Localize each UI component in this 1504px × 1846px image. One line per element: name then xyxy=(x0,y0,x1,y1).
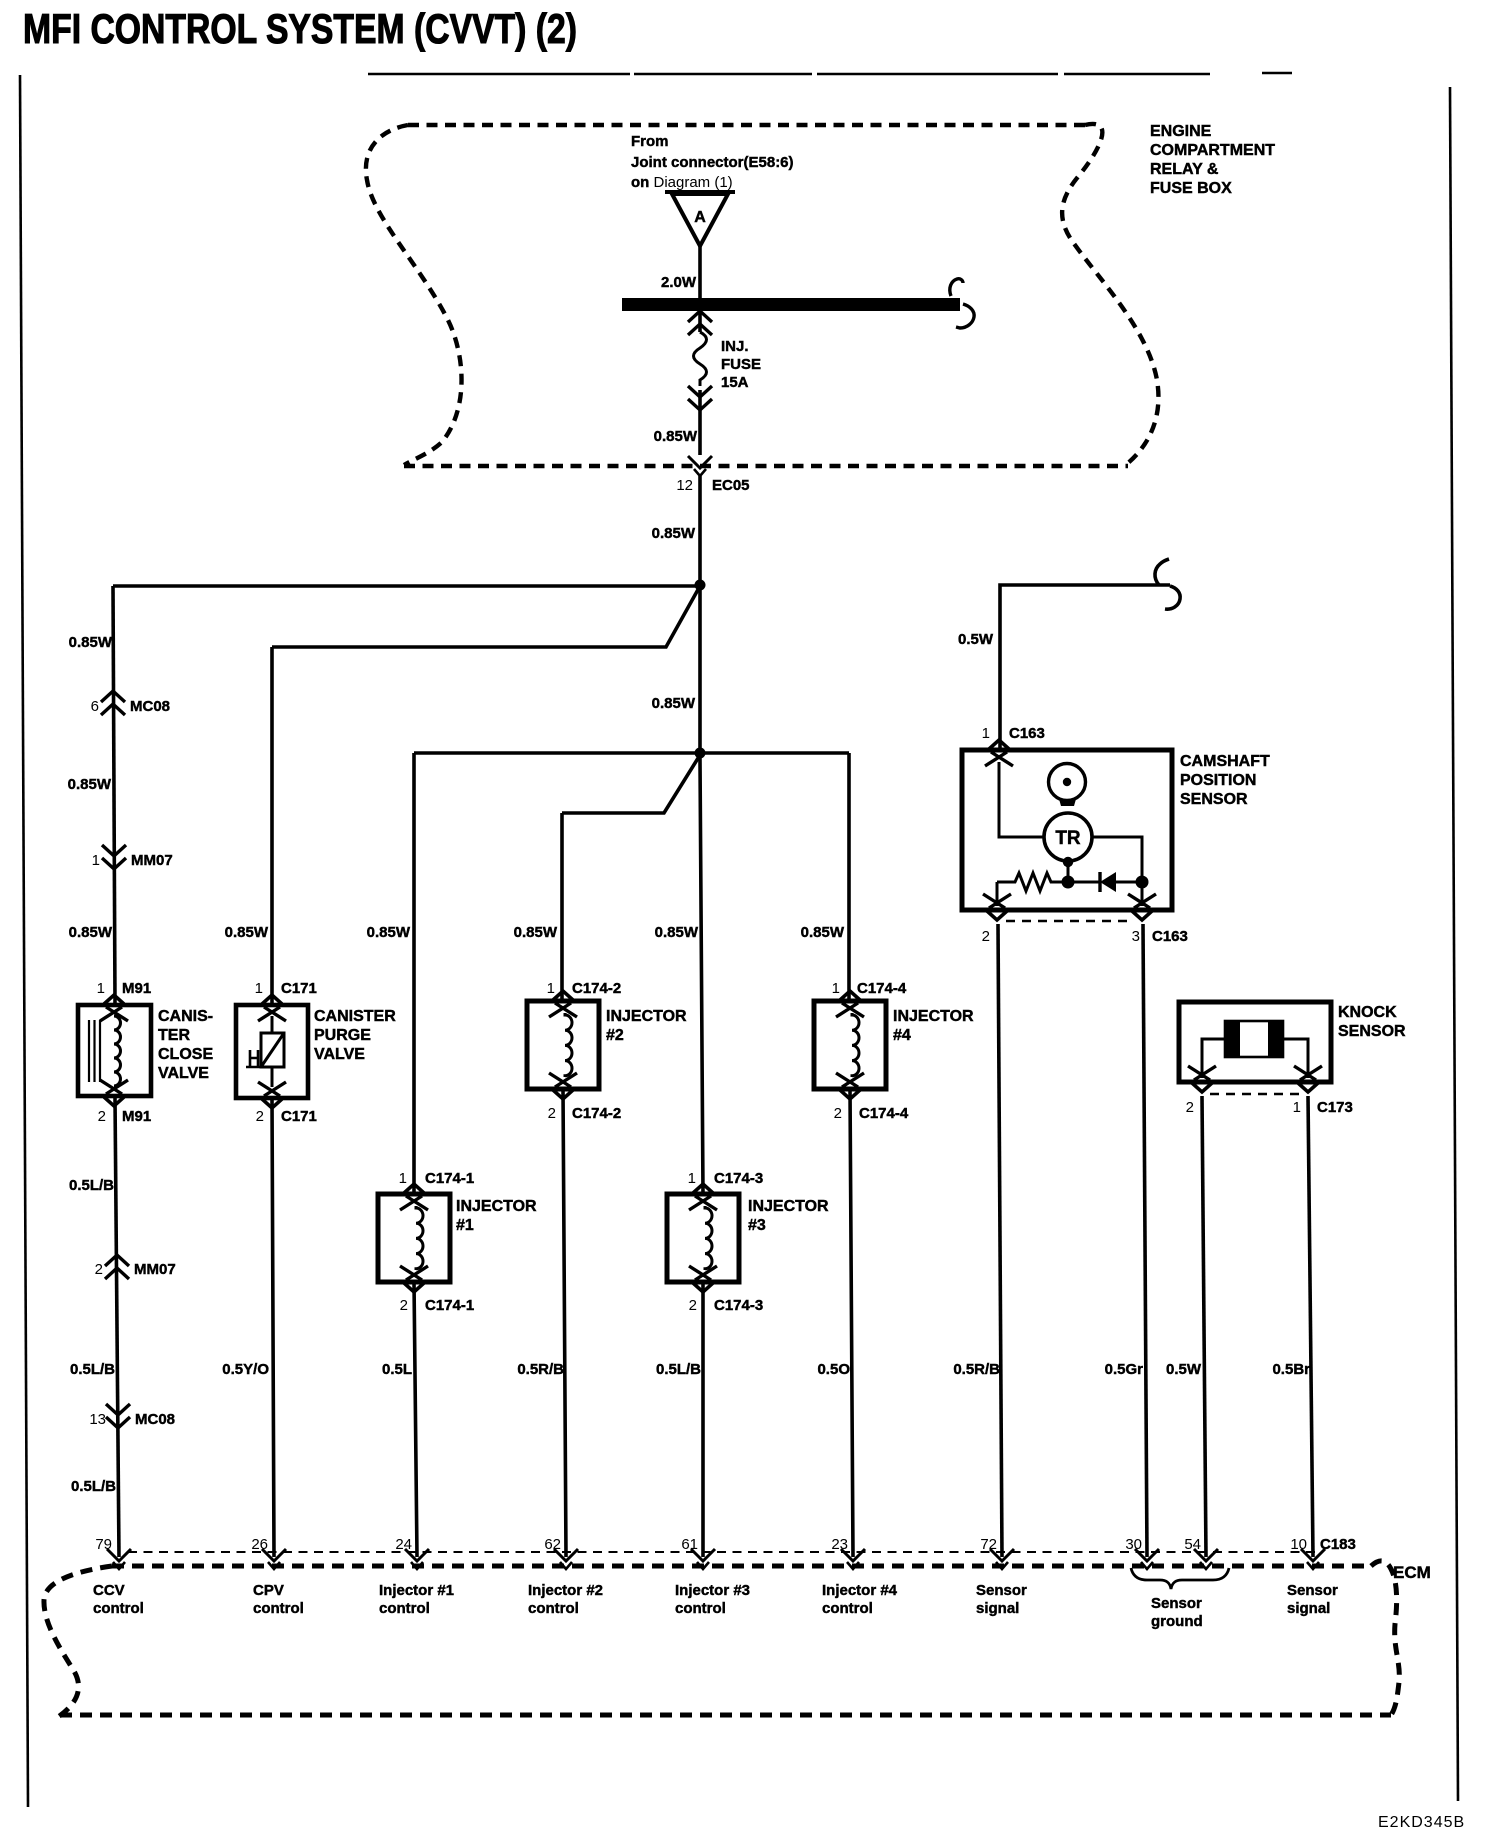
svg-text:54: 54 xyxy=(1184,1536,1201,1553)
svg-text:15A: 15A xyxy=(721,374,749,391)
connector 13 MC08 xyxy=(106,1404,130,1428)
svg-text:0.85W: 0.85W xyxy=(225,924,269,941)
svg-text:C171: C171 xyxy=(281,1108,317,1125)
svg-text:13: 13 xyxy=(89,1411,106,1428)
ECM pin connectors xyxy=(107,1549,131,1569)
wire from node A to bus bar 2.0W xyxy=(698,246,702,298)
svg-text:MM07: MM07 xyxy=(134,1261,176,1278)
svg-text:INJECTOR: INJECTOR xyxy=(456,1198,537,1215)
svg-text:1: 1 xyxy=(688,1170,696,1187)
svg-text:0.5Y/O: 0.5Y/O xyxy=(222,1361,269,1378)
svg-text:VALVE: VALVE xyxy=(158,1065,209,1082)
svg-text:ECM: ECM xyxy=(1393,1563,1431,1582)
wire injector 4 column xyxy=(849,753,853,1557)
frame top border xyxy=(368,73,1292,74)
bus bar xyxy=(622,298,960,311)
svg-text:0.85W: 0.85W xyxy=(654,428,698,445)
svg-text:Injector #1: Injector #1 xyxy=(379,1582,454,1599)
svg-text:CCV: CCV xyxy=(93,1582,125,1599)
connector 1 MM07 xyxy=(102,845,126,869)
svg-text:0.5R/B: 0.5R/B xyxy=(517,1361,564,1378)
svg-text:2: 2 xyxy=(95,1261,103,1278)
svg-text:62: 62 xyxy=(544,1536,561,1553)
svg-text:C174-4: C174-4 xyxy=(857,980,907,997)
junction node upper xyxy=(695,580,706,591)
svg-text:control: control xyxy=(93,1600,144,1617)
svg-text:C174-1: C174-1 xyxy=(425,1297,474,1314)
svg-text:FUSE BOX: FUSE BOX xyxy=(1150,180,1232,197)
svg-text:1: 1 xyxy=(97,980,105,997)
svg-text:2: 2 xyxy=(982,928,990,945)
svg-text:1: 1 xyxy=(92,852,100,869)
svg-text:PURGE: PURGE xyxy=(314,1027,371,1044)
svg-text:1: 1 xyxy=(982,725,990,742)
injector #3 C174-3 xyxy=(667,1184,739,1292)
svg-text:2: 2 xyxy=(256,1108,264,1125)
svg-text:Sensor: Sensor xyxy=(1151,1595,1202,1612)
svg-text:2: 2 xyxy=(834,1105,842,1122)
svg-text:MFI CONTROL SYSTEM (CVVT) (2): MFI CONTROL SYSTEM (CVVT) (2) xyxy=(23,5,577,52)
svg-text:M91: M91 xyxy=(122,980,151,997)
svg-text:2: 2 xyxy=(98,1108,106,1125)
frame left border xyxy=(20,75,28,1807)
svg-text:0.5R/B: 0.5R/B xyxy=(953,1361,1000,1378)
svg-text:C163: C163 xyxy=(1009,725,1045,742)
svg-text:Injector #2: Injector #2 xyxy=(528,1582,603,1599)
svg-text:C174-2: C174-2 xyxy=(572,1105,621,1122)
svg-text:From: From xyxy=(631,133,669,150)
wire knock pin1 to ECM 10 xyxy=(1308,1096,1313,1557)
svg-text:0.5L: 0.5L xyxy=(382,1361,412,1378)
svg-text:POSITION: POSITION xyxy=(1180,772,1256,789)
svg-text:A: A xyxy=(694,209,706,226)
wire injector 1 column xyxy=(414,753,417,1557)
svg-text:0.85W: 0.85W xyxy=(69,634,113,651)
wire CCV column upper xyxy=(113,586,115,1003)
svg-text:24: 24 xyxy=(395,1536,412,1553)
svg-text:control: control xyxy=(528,1600,579,1617)
canister close valve M91 xyxy=(78,995,151,1106)
fuse INJ. FUSE 15A xyxy=(698,311,702,332)
svg-text:0.85W: 0.85W xyxy=(652,525,696,542)
connector 2 MM07 xyxy=(105,1255,129,1279)
svg-text:0.85W: 0.85W xyxy=(514,924,558,941)
svg-text:CANISTER: CANISTER xyxy=(314,1008,396,1025)
dashed connector line C163 pins 2-3 xyxy=(1006,920,1133,923)
svg-text:6: 6 xyxy=(91,698,99,715)
svg-text:0.85W: 0.85W xyxy=(655,924,699,941)
svg-text:INJECTOR: INJECTOR xyxy=(606,1008,687,1025)
svg-text:C174-1: C174-1 xyxy=(425,1170,474,1187)
svg-text:EC05: EC05 xyxy=(712,477,750,494)
wire CCV column lower xyxy=(115,1098,119,1557)
wire injector 2 column xyxy=(562,813,566,1557)
injector #1 C174-1 xyxy=(378,1184,450,1292)
svg-text:FUSE: FUSE xyxy=(721,356,761,373)
knock sensor C173 xyxy=(1179,1002,1331,1092)
wire diagonal branch to injector 2 xyxy=(562,755,700,813)
wire knock pin2 to ECM 54 xyxy=(1202,1096,1206,1557)
svg-text:E2KD345B: E2KD345B xyxy=(1378,1814,1465,1831)
svg-text:C174-3: C174-3 xyxy=(714,1297,763,1314)
svg-text:3: 3 xyxy=(1132,928,1140,945)
ECM dashed outline top xyxy=(112,1564,1371,1569)
svg-text:61: 61 xyxy=(681,1536,698,1553)
svg-text:INJECTOR: INJECTOR xyxy=(893,1008,974,1025)
ECM dashed outline right wavy edge xyxy=(1371,1561,1399,1715)
wire camshaft sensor feed xyxy=(1000,585,1170,748)
camshaft position sensor C163 xyxy=(962,740,1172,920)
svg-text:2: 2 xyxy=(689,1297,697,1314)
svg-text:72: 72 xyxy=(980,1536,997,1553)
svg-text:COMPARTMENT: COMPARTMENT xyxy=(1150,142,1275,159)
svg-text:CLOSE: CLOSE xyxy=(158,1046,213,1063)
svg-text:ground: ground xyxy=(1151,1613,1203,1630)
node A triangle from joint connector xyxy=(665,192,735,246)
svg-text:#3: #3 xyxy=(748,1217,766,1234)
svg-text:2.0W: 2.0W xyxy=(661,274,697,291)
svg-text:on Diagram (1): on Diagram (1) xyxy=(631,174,733,191)
svg-text:0.85W: 0.85W xyxy=(68,776,112,793)
svg-text:CAMSHAFT: CAMSHAFT xyxy=(1180,753,1270,770)
svg-text:C163: C163 xyxy=(1152,928,1188,945)
svg-text:0.85W: 0.85W xyxy=(652,695,696,712)
svg-text:0.5W: 0.5W xyxy=(1166,1361,1202,1378)
svg-text:INJ.: INJ. xyxy=(721,338,749,355)
svg-text:0.85W: 0.85W xyxy=(801,924,845,941)
svg-text:M91: M91 xyxy=(122,1108,151,1125)
svg-text:0.85W: 0.85W xyxy=(367,924,411,941)
svg-text:0.5L/B: 0.5L/B xyxy=(70,1361,115,1378)
wire cmp pin3 to ECM 30 xyxy=(1143,924,1147,1557)
svg-text:control: control xyxy=(253,1600,304,1617)
svg-text:10: 10 xyxy=(1290,1536,1307,1553)
svg-text:0.5L/B: 0.5L/B xyxy=(656,1361,701,1378)
svg-text:2: 2 xyxy=(400,1297,408,1314)
svg-text:VALVE: VALVE xyxy=(314,1046,365,1063)
svg-text:CANIS-: CANIS- xyxy=(158,1008,213,1025)
frame right border xyxy=(1450,87,1458,1801)
svg-text:KNOCK: KNOCK xyxy=(1338,1004,1397,1021)
svg-text:C171: C171 xyxy=(281,980,317,997)
svg-text:0.5W: 0.5W xyxy=(958,631,994,648)
svg-text:#1: #1 xyxy=(456,1217,474,1234)
canister purge valve C171 xyxy=(236,995,308,1108)
svg-text:26: 26 xyxy=(251,1536,268,1553)
svg-text:12: 12 xyxy=(676,477,693,494)
svg-text:RELAY &: RELAY & xyxy=(1150,161,1219,178)
svg-text:1: 1 xyxy=(399,1170,407,1187)
thin dashed ECM connector line xyxy=(128,1551,1322,1553)
svg-text:79: 79 xyxy=(95,1536,112,1553)
camshaft feed continuation hook xyxy=(1155,559,1180,609)
svg-text:#4: #4 xyxy=(893,1027,911,1044)
svg-text:C174-3: C174-3 xyxy=(714,1170,763,1187)
wire cmp pin2 to ECM 72 xyxy=(998,924,1002,1557)
wire branch row to injector 1 and injector 4 xyxy=(414,751,849,755)
bus bar continuation hook xyxy=(950,279,974,328)
svg-text:C173: C173 xyxy=(1317,1099,1353,1116)
wire branch to CCV column xyxy=(113,584,700,588)
connector 6 MC08 xyxy=(101,691,125,715)
svg-text:0.5Br: 0.5Br xyxy=(1272,1361,1310,1378)
wire CPV column xyxy=(272,647,274,1557)
svg-text:0.5O: 0.5O xyxy=(817,1361,850,1378)
svg-text:signal: signal xyxy=(1287,1600,1330,1617)
svg-text:1: 1 xyxy=(832,980,840,997)
svg-text:SENSOR: SENSOR xyxy=(1180,791,1248,808)
svg-text:control: control xyxy=(822,1600,873,1617)
svg-text:C183: C183 xyxy=(1320,1536,1356,1553)
svg-text:0.85W: 0.85W xyxy=(69,924,113,941)
ECM dashed outline left wavy edge xyxy=(44,1566,112,1717)
svg-text:C174-4: C174-4 xyxy=(859,1105,909,1122)
svg-text:signal: signal xyxy=(976,1600,1019,1617)
junction node lower xyxy=(695,748,706,759)
svg-text:1: 1 xyxy=(547,980,555,997)
svg-text:SENSOR: SENSOR xyxy=(1338,1023,1406,1040)
svg-text:1: 1 xyxy=(255,980,263,997)
svg-text:TR: TR xyxy=(1055,828,1081,849)
svg-text:MM07: MM07 xyxy=(131,852,173,869)
engine compartment relay and fuse box dashed outline xyxy=(366,124,1159,466)
svg-text:#2: #2 xyxy=(606,1027,624,1044)
svg-text:TER: TER xyxy=(158,1027,190,1044)
ECM dashed outline bottom xyxy=(60,1713,1391,1718)
svg-text:0.5L/B: 0.5L/B xyxy=(71,1478,116,1495)
svg-text:Sensor: Sensor xyxy=(1287,1582,1338,1599)
svg-text:23: 23 xyxy=(831,1536,848,1553)
svg-text:control: control xyxy=(675,1600,726,1617)
svg-text:MC08: MC08 xyxy=(135,1411,175,1428)
injector #2 C174-2 xyxy=(527,991,599,1099)
svg-text:0.5L/B: 0.5L/B xyxy=(69,1177,114,1194)
svg-text:INJECTOR: INJECTOR xyxy=(748,1198,829,1215)
svg-text:CPV: CPV xyxy=(253,1582,284,1599)
connector 12 EC05 xyxy=(688,456,712,476)
wire diagonal branch to CPV column xyxy=(272,586,700,647)
svg-text:1: 1 xyxy=(1293,1099,1301,1116)
svg-text:Joint connector(E58:6): Joint connector(E58:6) xyxy=(631,154,794,171)
svg-text:0.5Gr: 0.5Gr xyxy=(1105,1361,1144,1378)
svg-text:2: 2 xyxy=(548,1105,556,1122)
svg-text:C174-2: C174-2 xyxy=(572,980,621,997)
injector #4 C174-4 xyxy=(814,991,886,1099)
svg-text:2: 2 xyxy=(1186,1099,1194,1116)
wire injector 3 column lower xyxy=(701,1282,705,1557)
svg-text:MC08: MC08 xyxy=(130,698,170,715)
svg-text:30: 30 xyxy=(1125,1536,1142,1553)
svg-text:Sensor: Sensor xyxy=(976,1582,1027,1599)
svg-text:control: control xyxy=(379,1600,430,1617)
svg-text:ENGINE: ENGINE xyxy=(1150,123,1212,140)
main feed wire below EC05 xyxy=(700,476,703,1194)
sensor ground brace xyxy=(1131,1568,1229,1589)
svg-text:Injector #3: Injector #3 xyxy=(675,1582,750,1599)
dashed connector line C173 pins 2-1 xyxy=(1210,1093,1299,1096)
svg-text:Injector #4: Injector #4 xyxy=(822,1582,898,1599)
